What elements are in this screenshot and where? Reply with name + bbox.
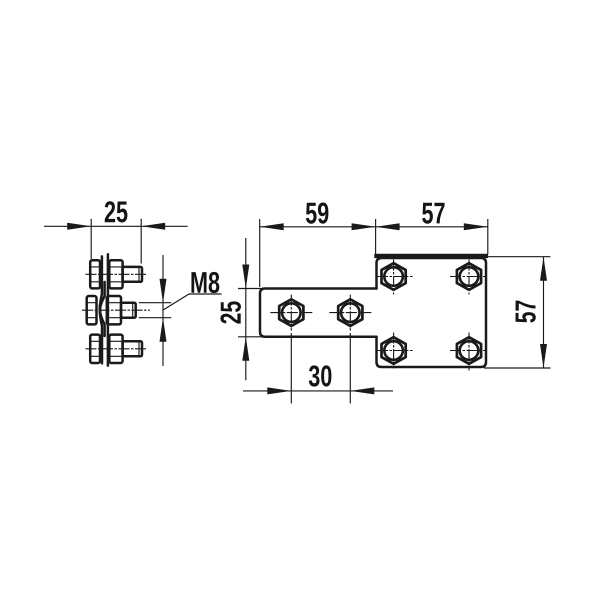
ext line left bbox=[290, 333, 292, 404]
dim line vertical bbox=[245, 238, 247, 380]
ext line at 486 bbox=[487, 219, 489, 255]
label 30 bbox=[309, 365, 332, 386]
ext line at 375 bbox=[375, 219, 377, 257]
square plate with interrupted left edge bbox=[377, 258, 487, 367]
ext line top bbox=[238, 288, 264, 290]
clamp plate left face line with pinch bulge bbox=[100, 256, 102, 363]
bolt 2 (middle) centerline bbox=[82, 309, 150, 311]
M8 ext line bottom bbox=[139, 317, 172, 319]
clamp plate pinch S-curve bbox=[100, 282, 104, 336]
bolt 1 (top) centerline bbox=[86, 273, 147, 275]
ext line top bbox=[488, 256, 551, 258]
M8 leader line bbox=[164, 294, 222, 310]
hex nut A (left rect, left) bbox=[270, 295, 312, 331]
arrow right-pointing bbox=[267, 387, 291, 394]
M8 arrow down bbox=[160, 279, 167, 303]
lower plate (left rounded rect) bbox=[260, 289, 377, 337]
dim line 25 bbox=[44, 225, 188, 227]
arrow right-pointing bbox=[67, 223, 91, 230]
bolt 2 nut (side view) bbox=[107, 296, 121, 324]
bolt 1 nut (side view) bbox=[109, 260, 122, 288]
bolt 1 hex head (side view) bbox=[90, 260, 100, 288]
arrow down bbox=[540, 344, 547, 368]
arrow 57 right bbox=[464, 223, 488, 230]
bolt 3 threaded stud bbox=[123, 341, 142, 356]
bolt 3 (bottom) centerline bbox=[86, 348, 147, 350]
label 57 rotated bbox=[516, 301, 536, 323]
arrow 59 right bbox=[352, 223, 376, 230]
ext line at 260 bbox=[259, 219, 261, 287]
ext line bottom bbox=[484, 367, 551, 369]
M8 arrow up bbox=[160, 318, 167, 342]
bolt 2 hex head (side view) bbox=[87, 296, 97, 324]
M8 dim line vertical bbox=[162, 255, 164, 366]
arrow down bbox=[242, 265, 249, 289]
dim line 59+57 bbox=[260, 226, 488, 228]
hex nut C (square, top-left) bbox=[377, 260, 413, 295]
label 25 bbox=[105, 201, 128, 222]
hex nut B (left rect, right) bbox=[329, 295, 371, 331]
label 57 top bbox=[422, 203, 444, 224]
arrow left-pointing bbox=[350, 387, 374, 394]
bolt 2 threaded stud bbox=[121, 303, 136, 318]
dim line bbox=[243, 390, 393, 392]
bolt 3 nut (side view) bbox=[109, 335, 122, 363]
arrow 57 left bbox=[376, 223, 400, 230]
ext line left bbox=[90, 219, 92, 259]
arrow up bbox=[242, 337, 249, 361]
ext line right bbox=[140, 219, 142, 264]
arrow 59 left bbox=[260, 223, 284, 230]
hex nut D (square, top-right) bbox=[450, 260, 486, 295]
dim line vertical bbox=[543, 257, 545, 368]
arrow up bbox=[540, 257, 547, 281]
label 59 bbox=[306, 202, 329, 223]
hex nut F (square, bottom-right) bbox=[450, 333, 486, 371]
ext line bottom bbox=[238, 336, 264, 338]
label 25 rotated bbox=[220, 301, 241, 323]
clamp plate right face line bbox=[107, 254, 110, 365]
ext line right bbox=[349, 333, 351, 404]
M8 ext line top bbox=[139, 302, 172, 304]
arrow left-pointing bbox=[141, 223, 165, 230]
hex nut E (square, bottom-left) bbox=[377, 333, 413, 369]
label M8 bbox=[191, 272, 219, 293]
bolt 3 hex head (side view) bbox=[90, 335, 100, 363]
upright plate edge-on (thick bar at square top) bbox=[374, 254, 488, 258]
bolt 1 threaded stud bbox=[123, 267, 142, 282]
